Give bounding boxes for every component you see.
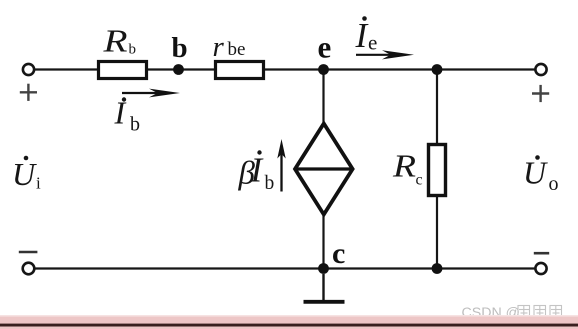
bottom highlight band	[0, 315, 578, 329]
svg-text:c: c	[416, 172, 423, 189]
plus sign input	[20, 84, 37, 101]
terminal output top	[535, 64, 546, 75]
svg-text:b: b	[172, 32, 188, 64]
current source arrow (upward)	[277, 139, 285, 192]
resistor Rc value label	[392, 148, 423, 189]
current arrow Ib	[122, 89, 180, 98]
resistor rbe	[216, 62, 264, 79]
svg-text:R: R	[102, 23, 128, 59]
resistor Rb value label	[102, 23, 136, 59]
svg-text:e: e	[318, 30, 332, 65]
node b	[173, 64, 184, 75]
minus sign input	[19, 251, 38, 254]
junction Rc bottom	[432, 263, 443, 274]
svg-text:b: b	[130, 114, 140, 136]
svg-text:b: b	[129, 42, 137, 58]
bottom dark line	[0, 324, 578, 327]
svg-text:be: be	[228, 39, 246, 60]
node e	[318, 64, 329, 75]
controlled current source beta*Ib (diamond)	[295, 124, 353, 215]
terminal output bottom	[535, 263, 546, 274]
current label Ie	[355, 16, 378, 55]
voltage label Ui	[12, 156, 41, 193]
minus sign output	[534, 252, 549, 255]
resistor rbe value label	[213, 31, 246, 63]
svg-text:R: R	[392, 148, 417, 184]
current arrow Ie	[356, 50, 414, 59]
ground	[304, 274, 345, 302]
svg-text:i: i	[36, 174, 41, 193]
svg-text:r: r	[213, 31, 225, 63]
junction Rc top	[432, 64, 443, 75]
svg-text:e: e	[368, 31, 377, 55]
terminal input bottom	[23, 263, 35, 275]
wire bottom rail	[34, 267, 535, 269]
wire e-node vertical branch	[322, 70, 324, 269]
svg-text:U: U	[12, 156, 37, 192]
resistor Rc	[429, 145, 446, 196]
watermark CJK glyphs	[518, 306, 562, 318]
node c	[318, 263, 329, 274]
resistor Rb	[99, 62, 147, 79]
svg-text:o: o	[549, 173, 559, 195]
svg-text:b: b	[265, 173, 275, 194]
current source label beta*Ib	[238, 150, 275, 194]
svg-text:U: U	[523, 155, 548, 191]
terminal input top	[23, 64, 34, 75]
plus sign output	[532, 85, 549, 102]
wire Rc vertical branch	[436, 70, 438, 269]
current label Ib	[114, 95, 141, 136]
svg-text:c: c	[332, 237, 345, 270]
wire top rail	[33, 68, 536, 70]
voltage label Uo	[523, 155, 559, 196]
